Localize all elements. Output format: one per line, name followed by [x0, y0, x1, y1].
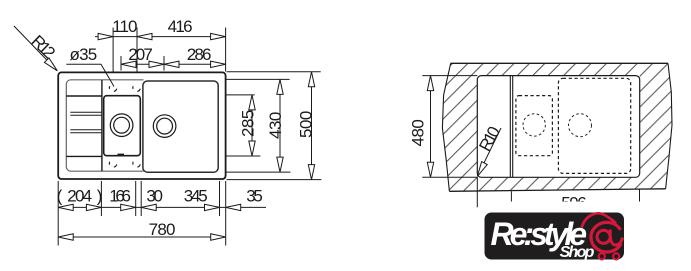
svg-text:207: 207: [128, 45, 152, 64]
countertop top edge: [451, 62, 668, 64]
tap hole top-left: [109, 86, 116, 91]
drainboard bottom line: [66, 155, 102, 157]
tap hole bottom-right: [133, 162, 140, 167]
drainboard divider: [101, 80, 103, 171]
svg-text:(: (: [57, 187, 63, 206]
dim 285 line: [251, 95, 253, 156]
small bowl drain: [110, 114, 133, 137]
svg-text:285: 285: [239, 110, 258, 137]
small bowl: [104, 96, 141, 156]
dim 500 line: [311, 72, 313, 180]
countertop left break line: [442, 63, 450, 191]
logo box: [485, 213, 625, 260]
svg-text:30: 30: [146, 187, 162, 206]
small bowl overflow mark: [118, 154, 125, 157]
cutout left double line: [510, 76, 512, 178]
svg-text:166: 166: [109, 187, 130, 206]
small bowl hidden outline: [516, 96, 553, 156]
large bowl hidden drain: [569, 114, 592, 137]
dim row2 extension lines: [121, 56, 164, 71]
svg-text:416: 416: [168, 17, 193, 36]
svg-text:35: 35: [246, 187, 262, 206]
svg-text:R10: R10: [475, 124, 504, 155]
svg-text:): ): [97, 187, 102, 206]
svg-text:110: 110: [112, 17, 137, 36]
dim 596 extension lines: [477, 177, 639, 210]
svg-text:500: 500: [297, 111, 316, 138]
R10 leader: [478, 128, 501, 175]
svg-text:345: 345: [184, 187, 208, 206]
dim row2 line: [121, 63, 226, 65]
logo raster white background: [481, 202, 655, 267]
drainboard top line: [66, 95, 102, 97]
small bowl hidden drain: [523, 114, 545, 136]
tap hole bottom-left: [109, 162, 116, 167]
dim row2 arrows: [121, 61, 136, 67]
dim row1 extension lines: [113, 28, 226, 72]
dim row3 extension lines: [101, 181, 219, 216]
large bowl drain: [153, 115, 176, 138]
svg-text:430: 430: [266, 112, 285, 139]
cutout outline: [477, 76, 639, 178]
large bowl hidden outline: [558, 78, 630, 173]
countertop hatched band: [442, 63, 672, 191]
drainboard grooves: [70, 112, 101, 133]
logo @ symbol: [591, 222, 623, 252]
dim 780 line: [58, 236, 226, 238]
dim 480 extension lines: [422, 76, 477, 178]
sink outer outline: [58, 72, 225, 179]
countertop right break line: [666, 63, 672, 189]
logo wheel left: [599, 253, 605, 259]
R12 leader: [14, 26, 56, 70]
dim 430 line: [279, 79, 281, 172]
dim row3 arrows: [58, 204, 73, 210]
dim row1 line: [95, 36, 226, 38]
svg-text:Shop: Shop: [560, 244, 595, 261]
tap hole top-right: [133, 86, 140, 91]
dim row3 line: [58, 206, 266, 208]
right vertical dims extension stubs: [227, 95, 261, 156]
svg-text:286: 286: [187, 45, 211, 64]
dim row1 arrows: [98, 33, 113, 39]
dim 480 line: [430, 76, 432, 178]
large bowl: [143, 81, 218, 172]
svg-text:780: 780: [149, 220, 176, 239]
svg-text:ø35: ø35: [70, 45, 97, 64]
svg-text:204: 204: [67, 187, 91, 206]
logo wheel right: [613, 253, 619, 259]
countertop bottom edge: [449, 189, 665, 192]
svg-text:R12: R12: [28, 31, 59, 62]
svg-text:480: 480: [408, 120, 427, 147]
logo cart handle: [582, 213, 615, 226]
dia35 leader: [66, 64, 114, 86]
sink inner rim: [66, 80, 143, 171]
